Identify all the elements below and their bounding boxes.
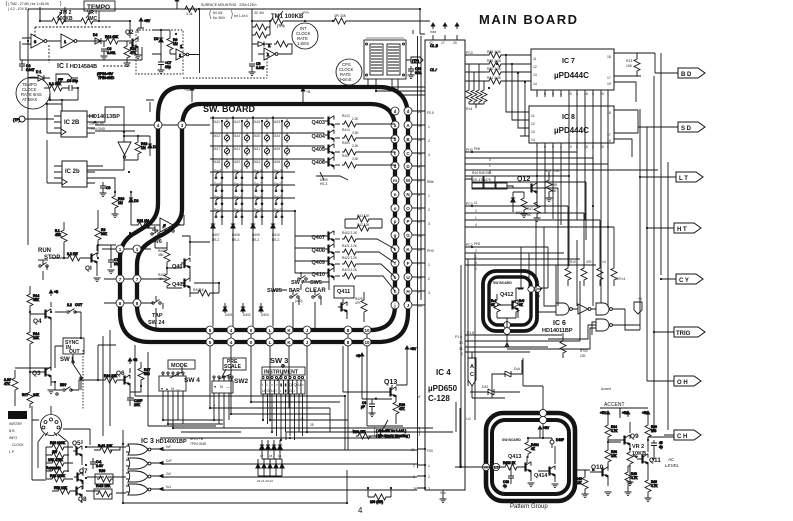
svg-text:0420: 0420 [253,134,260,138]
wire pattern loop riser [523,358,543,410]
+B flag at IC6 [634,302,642,314]
svg-text:µPD444C: µPD444C [554,126,589,135]
svg-text:G: G [289,388,292,393]
sw1 contacts [55,346,81,390]
switch sync out [54,383,79,395]
svg-text:SW I: SW I [60,357,73,363]
svg-text:10: 10 [364,340,370,345]
D409 diode mid [316,172,348,180]
svg-text:0424: 0424 [273,134,280,138]
svg-text:19: 19 [607,139,611,143]
svg-text:0.047: 0.047 [26,68,35,72]
resistor R13 at IC7 output [634,57,640,73]
transistor Q7 [74,467,83,489]
svg-text:AT MAX: AT MAX [22,97,37,102]
svg-text:BAR: BAR [289,288,300,294]
NOR gate IC3c [126,471,159,482]
svg-text:+5V: +5V [543,426,550,430]
connector pins right verticals [391,107,412,309]
IC7 left pins [522,55,531,81]
capacitor C8 [67,79,78,91]
MODE box pointer [170,367,182,378]
svg-text:Sw 12: Sw 12 [234,169,243,173]
+B feed C4 [356,353,372,399]
svg-text:Q409: Q409 [312,260,325,266]
svg-text:0.001: 0.001 [107,51,116,55]
resistor R46 4.7K [645,471,658,498]
trimmer TM2 [40,12,79,24]
svg-text:4: 4 [475,223,477,227]
switch SW7 [298,272,307,290]
A-C flag [468,352,476,392]
svg-text:2: 2 [428,139,430,143]
svg-text:SYNC: SYNC [10,414,25,420]
IC2b second flip-flop body [62,161,87,187]
svg-text:N: N [220,384,223,389]
wires from bottom bus pins down [210,346,367,450]
diode cluster 2 [256,462,260,470]
IC2B pins [54,116,95,133]
output flag LT [676,172,703,182]
bracket marks [6,1,232,19]
switch SW6 [151,226,160,248]
svg-text:15: 15 [600,145,604,149]
output flag CH [674,430,701,440]
svg-text:10: 10 [364,328,370,333]
svg-text:j: j [393,303,395,308]
bus rows PC2 group [472,247,596,265]
transistor Q406 [302,157,395,169]
svg-text:47K: 47K [399,407,406,411]
switch SW24 TAP [152,296,163,330]
+B arrow top [175,0,179,9]
transistor Q6 [121,369,130,396]
wires tempo group [145,228,219,293]
INSTRUMENT label box [262,367,305,375]
pin letters [119,109,499,470]
resistor R433 [499,461,522,470]
diode D4 [91,33,101,44]
svg-text:1: 1 [607,145,609,149]
switch DP out [55,303,82,313]
svg-text:µF: µF [361,405,365,409]
svg-text:—: — [176,386,180,391]
svg-text:PC4: PC4 [466,51,473,55]
svg-text:8: 8 [347,328,350,333]
transistor Q402 [164,268,190,297]
IC8 right pins [614,110,624,139]
svg-text:25: 25 [310,423,314,427]
IC8 left pins [520,112,529,136]
svg-text:G: G [406,233,410,238]
resistor R43 4.7K [625,466,638,492]
gate output arrows [159,448,163,491]
osc feedback resistors [252,21,270,62]
svg-text:4: 4 [489,158,491,162]
svg-text:10: 10 [568,145,572,149]
svg-text:21: 21 [418,220,422,224]
IC4 right pins bus rows [465,152,472,176]
svg-text:R61 3.3K: R61 3.3K [487,76,502,80]
resistor R24 [98,374,122,383]
svg-text:INFO: INFO [9,436,17,440]
svg-text:J: J [407,303,410,308]
transistor Q409 [325,256,395,277]
switch cells row 5-8 [215,172,283,218]
wires IC2b [47,140,115,192]
wires IC2B left [47,104,62,133]
base feed wires Q407-410 [295,159,325,273]
svg-text:16: 16 [584,145,588,149]
wire run row [50,257,64,259]
diode D43 [550,438,564,448]
svg-text:(TP): (TP) [13,118,20,122]
svg-text:SW 4: SW 4 [184,377,200,384]
svg-text:4: 4 [157,123,160,128]
NAND gate IC6b [596,303,612,315]
svg-text:27: 27 [418,290,422,294]
svg-text:C8 33p: C8 33p [67,79,78,83]
svg-text:d: d [407,109,410,114]
pattern-write loop inner (Q412 cell) [489,277,531,325]
IC3 supply frame [123,430,347,503]
svg-text:+5V: +5V [410,347,417,351]
svg-text:3V 40r: 3V 40r [254,11,265,15]
svg-text:2: 2 [428,475,430,479]
text SYNC black tag [8,411,27,419]
svg-text:23: 23 [418,207,422,211]
right area long verticals [640,53,668,430]
PRE SCALE pointer [219,369,231,379]
svg-text:(TPI): (TPI) [277,24,285,28]
svg-text:D409: D409 [252,233,260,237]
svg-text:PC2: PC2 [466,243,473,247]
svg-text:BB?: BB? [60,383,67,387]
svg-text:Sw 23: Sw 23 [274,208,283,212]
svg-text:0422: 0422 [233,160,240,164]
svg-text:13: 13 [493,465,499,470]
output flag HT [674,223,701,233]
FF flag [56,74,72,82]
svg-text:Q: Q [289,382,292,387]
svg-text:7: 7 [536,145,538,149]
TEMPO label box [84,1,115,11]
dashed assembly outline [136,30,267,78]
svg-text:R414: R414 [342,128,350,132]
svg-text:22K: 22K [611,454,618,458]
resistor R28 [393,396,406,420]
svg-text:14: 14 [531,138,535,142]
wire top rail taps [40,7,130,38]
svg-text:F00: F00 [427,449,433,453]
svg-text:6rr 35Vr: 6rr 35Vr [213,16,226,20]
+B Q6 [128,358,138,364]
driver transistors Q403-Q410 [295,116,395,291]
svg-text:22 21 23 24: 22 21 23 24 [257,479,273,483]
wires loop rows to grid [95,125,210,131]
wires Q1 to loop [64,245,116,258]
svg-text:0423: 0423 [273,120,280,124]
wires pattern interior [455,424,543,470]
output flag SD [678,122,705,132]
svg-text:AC: AC [667,457,675,462]
svg-text:8: 8 [119,301,122,306]
svg-text:18: 18 [418,234,422,238]
svg-text:R•18 15K: R•18 15K [96,484,111,488]
svg-text:3PI 33K: 3PI 33K [334,14,347,18]
pattern-write loop outer (Q412 cell) [483,271,537,331]
svg-text:12K: 12K [580,354,587,358]
dashed left assembly components [152,30,200,74]
svg-text:Sw 16: Sw 16 [254,169,263,173]
svg-text:▮: ▮ [285,382,287,387]
svg-text:12: 12 [533,65,537,69]
wires left into loop [141,249,167,303]
svg-text:4µ: 4µ [503,484,507,488]
switch SW5 CLEAR [312,290,321,330]
svg-text:22: 22 [418,110,422,114]
svg-text:+5V: +5V [642,411,649,415]
extended verticals under IC7/IC8 [558,158,608,307]
transistor Q412 [497,300,518,318]
svg-text:+5V: +5V [144,19,151,23]
svg-text:Q4: Q4 [33,318,42,325]
resistor R9 [167,30,178,54]
svg-text:8.2: 8.2 [49,82,54,86]
svg-text:OUT: OUT [75,303,82,307]
resistor R18 [22,386,40,408]
svg-text:H T: H T [677,227,687,233]
IC4 top power pins [433,35,457,40]
resistor R16 [135,136,147,160]
trimmer VR1 [79,12,130,24]
transistor Q405 [302,144,395,156]
svg-text:▮: ▮ [285,388,287,393]
wire IC8 out to SD flag [614,110,678,157]
svg-text:0424: 0424 [253,160,260,164]
svg-text:1: 1 [136,247,139,252]
osc diode D2 [252,42,272,47]
bus rows PC3 group [472,206,614,227]
svg-text:0: 0 [250,328,253,333]
svg-text:0412: 0412 [233,120,240,124]
svg-text:CLOCK: CLOCK [12,443,24,447]
svg-text:C: C [470,372,474,378]
bold Q403-410 designators [312,120,326,278]
svg-text:m: m [393,178,397,183]
capacitor C43 [503,470,514,488]
svg-text:22K: 22K [33,336,40,340]
svg-text:×4: ×4 [602,260,606,264]
svg-text:0414: 0414 [233,134,240,138]
svg-text:24K: 24K [33,393,40,397]
inverter IC6d [578,304,591,314]
svg-text:O H: O H [677,380,688,386]
svg-text:17: 17 [607,133,611,137]
labels tempo group [158,226,363,317]
svg-text:o: o [394,206,397,211]
top right rail entering Vdd [348,9,425,34]
transistor Q401 [164,242,210,278]
SW2 contacts [213,376,233,381]
svg-text:Sw 22: Sw 22 [274,195,283,199]
svg-text:D•F: D•F [166,459,172,463]
svg-text:P: P [406,219,409,224]
svg-text:Q9: Q9 [630,433,639,440]
svg-text:3: 3 [181,123,184,128]
NAND gate IC6a [556,303,572,315]
svg-text:SW2: SW2 [234,378,248,385]
NOR gate IC3a [126,444,159,455]
svg-text:F0.0: F0.0 [427,111,434,115]
svg-text:18: 18 [607,111,611,115]
svg-text:+B: +B [356,354,361,358]
svg-text:1: 1 [428,125,430,129]
svg-text:CL B: CL B [430,44,439,48]
svg-text:B D: B D [681,72,692,78]
rail resistor right [332,18,430,24]
svg-text:SW 3: SW 3 [270,356,288,365]
svg-text:RBe: RBe [427,180,434,184]
NOR gate IC3d [126,484,159,495]
capacitor C20 [127,396,142,407]
svg-text:Sw 13: Sw 13 [234,182,243,186]
IC4 uPD650 body [425,40,465,490]
resistor R8 [44,82,67,91]
svg-text:HS-2: HS-2 [272,238,279,242]
output flag BD [678,68,705,78]
verticals bus to IC6 write loop [521,220,556,312]
svg-text:R402 2.2K: R402 2.2K [342,231,358,235]
svg-text:20K: 20K [134,403,141,407]
op-amp U1b [59,34,91,48]
SW3 exits [263,394,303,440]
wires divider [87,136,150,170]
svg-text:R433 1K: R433 1K [503,461,516,465]
SW3 switch block [261,380,305,394]
svg-text:6: 6 [544,145,546,149]
INT clock circle wire [304,21,306,22]
svg-text:3.2 1W: 3.2 1W [67,252,79,256]
svg-text:Sw 25: Sw 25 [254,208,263,212]
svg-text:5: 5 [209,340,212,345]
bus rows PH group [472,152,658,176]
SW2 exits [214,393,229,428]
svg-text:1: 1 [119,247,122,252]
svg-text:1: 1 [607,92,609,96]
svg-text:HS-2: HS-2 [252,238,259,242]
svg-text:R12 40K: R12 40K [105,35,119,39]
svg-text:O: O [267,388,270,393]
svg-text:IC 3 HD14001BP: IC 3 HD14001BP [141,438,187,445]
svg-text:R•provide: R•provide [46,466,61,470]
svg-text:2: 2 [592,92,594,96]
svg-text:22K: 22K [576,481,583,485]
svg-text:O: O [406,206,410,211]
resistor R35 [46,466,69,474]
svg-text:3: 3 [428,222,430,226]
svg-text:0412: 0412 [213,134,220,138]
svg-text:33K: 33K [101,232,108,236]
svg-text:k: k [394,247,397,252]
svg-text:Q407: Q407 [312,235,325,241]
svg-text:10µ: 10µ [114,262,120,266]
wire IC7 out to BD flag [614,53,678,102]
resistor R39 150 [645,417,657,439]
svg-text:SW 7: SW 7 [291,280,304,286]
svg-text:▴: ▴ [166,386,168,391]
svg-text:10K 470K: 10K 470K [48,458,64,462]
+5V feed Q13 [396,346,417,385]
resistor R46 Q12 [521,192,528,218]
zener D3 [129,192,139,212]
svg-text:R24 22K: R24 22K [104,374,118,378]
svg-text:3: 3 [428,487,430,491]
cpu clock rate note circle [336,59,362,85]
svg-text:—: — [226,384,230,389]
svg-text:D2: D2 [153,145,157,149]
svg-text:84 40r: 84 40r [213,11,223,15]
svg-text:•Г: •Г [418,395,421,399]
svg-text:Q412: Q412 [500,292,513,298]
feedback rail [20,41,142,60]
svg-text:µPD444C: µPD444C [554,71,589,80]
transistor Q2 [129,36,142,59]
svg-text:0: 0 [250,340,253,345]
diagonal wire [371,399,396,436]
extra annotation specks right mesh [472,147,642,358]
svg-text:SW5: SW5 [310,280,322,286]
diode D2 [148,138,158,156]
resistors R 3.3K x4 at IC7 inputs [487,52,503,58]
svg-text:J: J [306,328,309,333]
svg-text:3.3K: 3.3K [352,131,359,135]
op-amp U1c [150,218,184,232]
wires Q3 [15,368,51,406]
svg-text:2: 2 [475,249,477,253]
wires U1c [131,212,184,225]
svg-text:0417: 0417 [213,147,220,151]
svg-text:R413: R413 [342,114,350,118]
resistor at Q411 [361,298,367,314]
labels Q403-Q410 values [320,114,370,272]
svg-text:R407: R407 [342,154,350,158]
wires Q6 region [51,380,141,392]
transistor Q10 [590,464,608,486]
svg-text:2.2K: 2.2K [352,117,359,121]
svg-text:PH3: PH3 [466,148,473,152]
svg-text:2•0: 2•0 [166,472,171,476]
svg-text:8: 8 [347,340,350,345]
svg-text:7: 7 [136,277,139,282]
resistor R48 Q12 [534,198,541,222]
svg-text:4.7K: 4.7K [651,484,658,488]
svg-text:Q406: Q406 [312,160,325,166]
PRE SCALE label box [223,358,246,370]
IC4 Vss ground [440,499,447,503]
svg-text:QI: QI [85,265,92,272]
svg-text:4: 4 [230,328,233,333]
transistor Q413 [522,460,535,487]
svg-text:1M: 1M [118,201,123,205]
svg-text:SURFACE MOUNTING 22M=125V¹: SURFACE MOUNTING 22M=125V¹ [201,3,258,7]
svg-text:2W: 2W [52,450,58,454]
svg-text:Q403: Q403 [312,120,325,126]
svg-text:R423 2.2K: R423 2.2K [342,268,358,272]
pull-down resistor bank Rx4 [466,64,487,108]
svg-text:45K: 45K [55,233,62,237]
svg-text:F: F [407,261,410,266]
